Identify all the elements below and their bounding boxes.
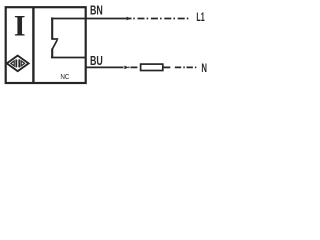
svg-text:I: I	[14, 9, 26, 42]
svg-text:BN: BN	[90, 3, 103, 18]
svg-text:BU: BU	[90, 53, 103, 68]
svg-text:L1: L1	[196, 10, 204, 24]
svg-text:NC: NC	[60, 72, 70, 81]
svg-text:N: N	[201, 61, 207, 75]
